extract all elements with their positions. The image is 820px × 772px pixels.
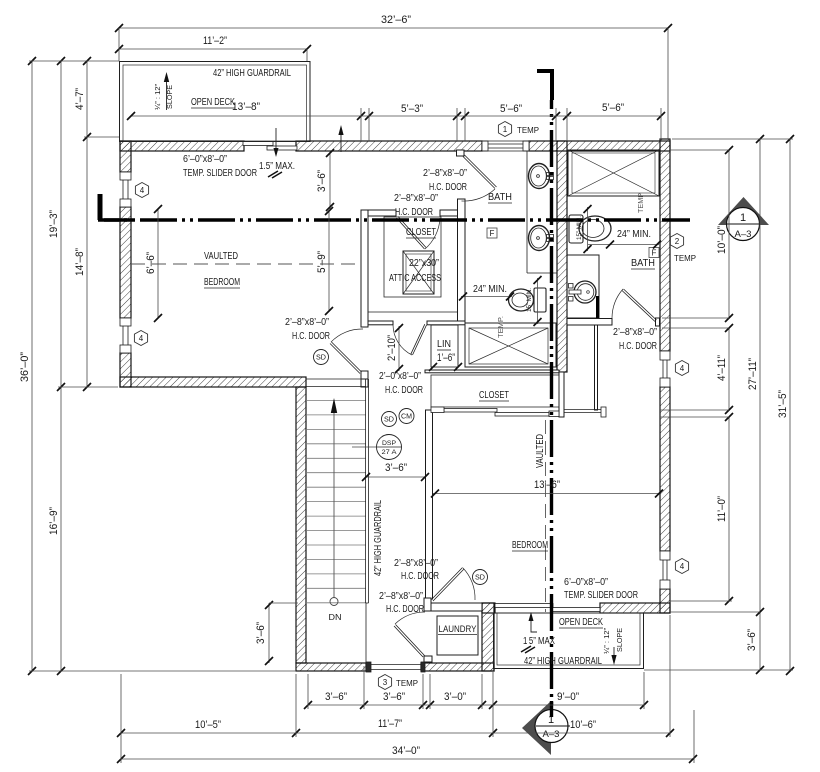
bath1 toilet tank xyxy=(534,288,546,312)
match line horizontal xyxy=(98,194,690,220)
svg-text:13’–6”: 13’–6” xyxy=(534,479,560,491)
dim 6-6 bedroom1 xyxy=(145,205,162,322)
svg-text:TEMP.: TEMP. xyxy=(498,316,505,338)
svg-text:42” HIGH GUARDRAIL: 42” HIGH GUARDRAIL xyxy=(213,68,291,79)
closet2 top wall xyxy=(425,370,559,373)
bedroom1 door swing arc xyxy=(331,329,363,342)
svg-text:5’–6”: 5’–6” xyxy=(602,102,624,114)
wire left exterior wall upper xyxy=(120,141,131,172)
dim 13-6 bedroom2 xyxy=(431,479,663,498)
wire left exterior wall lower xyxy=(120,353,131,387)
section marker bottom xyxy=(522,701,570,755)
wire right exterior wall middle xyxy=(660,387,670,551)
attic access box xyxy=(403,251,434,294)
bath1 door jamb xyxy=(457,150,465,156)
svg-text:10’–0”: 10’–0” xyxy=(716,226,728,254)
svg-text:TEMP: TEMP xyxy=(638,193,645,213)
wire bottom wall at stair xyxy=(296,663,366,671)
label slider door1 xyxy=(183,154,257,179)
laundry door jamb xyxy=(424,656,432,662)
dashed ceiling line bedroom2 xyxy=(545,420,547,612)
label laundry door xyxy=(379,591,424,615)
svg-text:2’–8”x8’–0”: 2’–8”x8’–0” xyxy=(613,327,657,338)
SD circle hall xyxy=(382,412,397,427)
svg-text:3’–6”: 3’–6” xyxy=(383,691,405,703)
svg-text:H.C. DOOR: H.C. DOOR xyxy=(429,182,467,193)
svg-text:ATTIC ACCESS: ATTIC ACCESS xyxy=(389,273,441,284)
dim 24min bath1 xyxy=(459,284,514,301)
closet2 bipass doors xyxy=(431,407,559,417)
label bath1 xyxy=(488,192,512,203)
closet2 right wall xyxy=(559,372,564,417)
label 15max deck2 xyxy=(521,612,555,653)
linen closet box xyxy=(431,325,458,367)
label bedroom2 door xyxy=(394,558,439,582)
wire bedroom2 bottom wall left stub xyxy=(482,603,495,613)
dim line 32-6 top xyxy=(115,14,672,32)
svg-text:2’–8”x8’–0”: 2’–8”x8’–0” xyxy=(394,193,438,204)
closet1 top wall right piece xyxy=(440,210,458,216)
svg-text:CLOSET: CLOSET xyxy=(479,390,509,401)
bath2 shower pan lower xyxy=(567,255,599,318)
label slider door2 xyxy=(564,577,638,601)
svg-text:BEDROOM: BEDROOM xyxy=(204,277,240,288)
F box bath1 xyxy=(487,228,497,238)
bath2 toilet bowl xyxy=(579,216,611,241)
label 1.5max arrow xyxy=(259,128,295,178)
svg-text:SLOPE: SLOPE xyxy=(167,85,174,109)
svg-text:TEMP. SLIDER DOOR: TEMP. SLIDER DOOR xyxy=(183,168,257,179)
label open deck2 xyxy=(559,617,603,628)
svg-text:TEMP. SLIDER DOOR: TEMP. SLIDER DOOR xyxy=(564,590,638,601)
svg-text:42” HIGH GUARDRAIL: 42” HIGH GUARDRAIL xyxy=(524,656,602,667)
dashed ceiling line bedroom1 xyxy=(131,263,361,265)
window W3 top wall xyxy=(482,141,529,151)
svg-text:H.C. DOOR: H.C. DOOR xyxy=(619,341,657,352)
svg-text:2’–8”x8’–0”: 2’–8”x8’–0” xyxy=(379,591,423,602)
match line vertical xyxy=(537,71,552,708)
label bedroom1 door xyxy=(285,317,330,342)
svg-text:4: 4 xyxy=(140,186,145,195)
svg-text:36’–0”: 36’–0” xyxy=(19,352,31,382)
svg-text:SLOPE: SLOPE xyxy=(617,628,624,652)
laundry door swing arc xyxy=(395,612,425,624)
dim 24min bath2 xyxy=(588,229,661,249)
bath1 toilet clearance dim xyxy=(534,276,542,326)
svg-text:2’–8”x8’–0”: 2’–8”x8’–0” xyxy=(285,317,329,328)
wall bath2 to closet2 xyxy=(595,325,598,410)
wire left exterior wall middle xyxy=(120,207,131,318)
bath1 toilet bowl xyxy=(509,289,534,311)
label closet1 door upper xyxy=(423,168,467,193)
bath1 sink upper xyxy=(529,164,554,189)
hall-closet2 wall xyxy=(426,410,433,599)
wire laundry right wall xyxy=(482,603,494,671)
svg-text:24” MIN.: 24” MIN. xyxy=(617,229,651,240)
closet1 inner box xyxy=(384,217,441,297)
dim 3-6 bedroom1 top xyxy=(316,149,334,211)
laundry top wall xyxy=(431,603,482,611)
svg-text:A–3: A–3 xyxy=(543,729,560,739)
svg-text:LIN: LIN xyxy=(437,339,451,350)
bath1 door swing arc xyxy=(462,189,496,201)
closet2 front wall line xyxy=(564,407,606,417)
svg-text:42” HIGH GUARDRAIL: 42” HIGH GUARDRAIL xyxy=(373,500,384,576)
dim 1-6 linen xyxy=(429,363,462,371)
svg-text:OPEN DECK: OPEN DECK xyxy=(191,97,235,108)
label lin door xyxy=(379,371,423,396)
bath2 toilet tank xyxy=(569,215,583,243)
bath2 door jamb at right wall xyxy=(656,318,660,326)
svg-text:H.C. DOOR: H.C. DOOR xyxy=(386,604,424,615)
label closet2 xyxy=(479,390,509,401)
closet1 door swing arc xyxy=(425,218,440,249)
svg-text:27’–11”: 27’–11” xyxy=(747,358,759,390)
svg-text:3’–6”: 3’–6” xyxy=(746,629,758,651)
svg-text:5’–9”: 5’–9” xyxy=(316,251,328,273)
svg-text:2’–8”x8’–0”: 2’–8”x8’–0” xyxy=(394,558,438,569)
svg-text:15” MIN.: 15” MIN. xyxy=(576,216,583,240)
wall A stub below door xyxy=(361,371,368,387)
F box bath2 xyxy=(649,248,659,258)
deck2 outline xyxy=(494,613,644,669)
svg-text:10’–6”: 10’–6” xyxy=(570,719,596,731)
svg-text:6’–6”: 6’–6” xyxy=(145,252,157,274)
svg-text:TEMP: TEMP xyxy=(674,254,696,263)
svg-text:DN: DN xyxy=(329,613,342,622)
svg-text:24” MIN.: 24” MIN. xyxy=(473,284,507,295)
svg-text:H.C. DOOR: H.C. DOOR xyxy=(395,207,433,218)
svg-text:SD: SD xyxy=(475,575,485,582)
label laundry xyxy=(438,624,477,635)
dim 3-6 hall xyxy=(362,462,429,481)
svg-text:H.C. DOOR: H.C. DOOR xyxy=(292,331,330,342)
label open deck1 xyxy=(191,97,235,108)
svg-text:BEDROOM: BEDROOM xyxy=(512,540,548,551)
closet2 interior box xyxy=(431,375,559,407)
wire bedroom2 bottom wall right xyxy=(600,603,670,613)
svg-text:2: 2 xyxy=(675,237,680,246)
extension lines top xyxy=(119,28,668,139)
svg-text:2’–8”x8’–0”: 2’–8”x8’–0” xyxy=(423,168,467,179)
stair treads xyxy=(306,401,366,603)
wire right exterior wall upper xyxy=(660,139,670,351)
svg-text:BATH: BATH xyxy=(631,258,655,269)
hexagon tag 3 bottom xyxy=(378,675,391,690)
svg-text:LAUNDRY: LAUNDRY xyxy=(439,624,478,635)
dim line 27-11 and 3-6 right xyxy=(746,135,764,674)
stair up arrow xyxy=(330,398,338,606)
dim line 4-7 and 14-8 left xyxy=(74,57,91,391)
slider door bedroom1 xyxy=(243,142,297,151)
label bath2 door xyxy=(613,327,657,352)
svg-text:CLOSET: CLOSET xyxy=(406,227,436,238)
svg-text:3’–0”: 3’–0” xyxy=(444,691,466,703)
slider door bedroom2 xyxy=(495,604,600,612)
wire top exterior wall segment middle xyxy=(296,141,482,151)
bath1 sink lower xyxy=(529,226,554,251)
svg-text:6’–0”x8’–0”: 6’–0”x8’–0” xyxy=(183,154,227,165)
svg-text:22”x30”: 22”x30” xyxy=(409,258,439,269)
svg-text:32’–6”: 32’–6” xyxy=(381,14,411,26)
dim 3-6 stair bottom left xyxy=(255,601,298,665)
svg-text:1: 1 xyxy=(740,212,746,224)
closet1 door leaf xyxy=(397,217,427,250)
wall B closet-bath wall xyxy=(458,199,466,321)
hexagon tag 4 right upper xyxy=(675,361,688,376)
svg-text:5’–6”: 5’–6” xyxy=(500,103,522,115)
svg-text:SD: SD xyxy=(384,417,394,424)
wire top exterior wall segment left xyxy=(120,141,244,151)
extension lines bottom xyxy=(121,615,694,763)
svg-text:DSP: DSP xyxy=(382,440,396,447)
svg-text:16’–9”: 16’–9” xyxy=(48,507,60,535)
svg-text:4’–7”: 4’–7” xyxy=(74,88,86,110)
svg-text:4: 4 xyxy=(680,364,685,373)
svg-text:TEMP: TEMP xyxy=(517,126,539,135)
svg-text:15” MIN.: 15” MIN. xyxy=(526,288,533,312)
linen door leaf xyxy=(411,324,427,355)
bath2 door swing arc xyxy=(612,289,623,318)
svg-text:3’–6”: 3’–6” xyxy=(255,622,267,644)
hexagon tag 1 top xyxy=(498,122,511,137)
window W5 right wall xyxy=(660,551,670,589)
linen door swing arc xyxy=(393,325,412,355)
window W1 left wall xyxy=(120,172,131,207)
svg-text:10’–5”: 10’–5” xyxy=(195,719,221,731)
dim line bottom row3 xyxy=(117,745,697,763)
extension lines left xyxy=(29,61,296,671)
bath2 bottom wall xyxy=(567,319,612,326)
svg-text:3’–6”: 3’–6” xyxy=(316,170,328,192)
dim line 10-0 4-11 11-0 right xyxy=(716,146,733,605)
svg-text:VAULTED: VAULTED xyxy=(204,251,238,262)
dim 5-9 closet side xyxy=(316,207,333,315)
extension lines right xyxy=(644,139,793,670)
svg-text:34’–0”: 34’–0” xyxy=(392,745,420,757)
svg-text:3’–6”: 3’–6” xyxy=(325,691,347,703)
wire stairwell left wall xyxy=(296,387,306,663)
svg-text:¼” : 12”: ¼” : 12” xyxy=(155,83,162,110)
hexagon tag 2 right xyxy=(670,234,683,249)
svg-text:9’–0”: 9’–0” xyxy=(557,691,579,703)
dim line bottom row1 xyxy=(304,691,648,709)
bedroom2 door leaf xyxy=(432,568,465,602)
dim line interior top chain xyxy=(127,101,665,120)
CM circle hall xyxy=(399,409,414,424)
hexagon tag 4 left upper xyxy=(135,183,148,198)
SD circle bedroom1 xyxy=(314,350,329,365)
svg-text:31’–5”: 31’–5” xyxy=(777,390,789,418)
svg-text:¼” : 12”: ¼” : 12” xyxy=(604,627,611,654)
svg-text:2’–10”: 2’–10” xyxy=(386,335,398,361)
svg-text:H.C. DOOR: H.C. DOOR xyxy=(385,385,423,396)
window W4 right wall xyxy=(660,351,670,387)
svg-text:TEMP: TEMP xyxy=(396,679,418,688)
closet1 top wall left piece xyxy=(368,210,396,216)
bedroom1 door jamb xyxy=(361,371,368,379)
svg-text:BATH: BATH xyxy=(488,192,512,203)
hall-bath wall right piece xyxy=(427,321,465,325)
svg-text:VAULTED: VAULTED xyxy=(535,434,546,468)
laundry room box xyxy=(437,616,478,655)
svg-text:1’–6”: 1’–6” xyxy=(437,352,455,364)
laundry door leaf xyxy=(394,625,425,658)
label bedroom1 xyxy=(204,277,240,288)
svg-text:11’–2”: 11’–2” xyxy=(203,35,227,47)
SD circle bedroom2 xyxy=(473,570,488,585)
bath1 vanity counter xyxy=(527,151,557,273)
dim line 31-5 right xyxy=(777,135,794,675)
bath2 door leaf xyxy=(622,289,657,322)
dim 2-10 at bedroom1 door xyxy=(386,324,403,373)
dim line 19-3 and 16-9 left xyxy=(48,57,65,675)
bath2 shower box top xyxy=(568,150,659,196)
svg-text:4: 4 xyxy=(139,334,144,343)
wire bedroom1 bottom wall xyxy=(120,377,306,387)
dim line 36-0 left xyxy=(19,57,36,675)
small arrow at deck1 right xyxy=(338,125,343,152)
dim line bottom row2 xyxy=(117,718,674,737)
DSP circle hall xyxy=(352,435,402,460)
svg-text:11’–0”: 11’–0” xyxy=(716,496,728,522)
wire top exterior wall segment right xyxy=(529,141,670,151)
svg-text:F: F xyxy=(490,229,495,238)
label slope deck2 rotated xyxy=(604,627,624,665)
hexagon tag 4 left lower xyxy=(134,331,147,346)
svg-text:4: 4 xyxy=(680,562,685,571)
wall A bedroom1 right wall xyxy=(361,210,368,327)
svg-text:5’–3”: 5’–3” xyxy=(401,103,423,115)
svg-text:6’–0”x8’–0”: 6’–0”x8’–0” xyxy=(564,577,608,588)
svg-text:CM: CM xyxy=(401,414,412,421)
svg-text:14’–8”: 14’–8” xyxy=(74,248,86,276)
closet1 bottom line xyxy=(368,311,457,313)
label attic access xyxy=(389,258,441,284)
svg-text:27 A: 27 A xyxy=(382,449,398,456)
hall-bath wall left piece xyxy=(368,321,393,325)
dim line 11-2 xyxy=(115,35,311,53)
svg-text:1 5” MAX: 1 5” MAX xyxy=(523,636,555,647)
svg-text:1: 1 xyxy=(503,125,508,134)
hexagon tag 4 right lower xyxy=(675,559,688,574)
bedroom1 door leaf xyxy=(330,342,362,374)
svg-text:13’–8”: 13’–8” xyxy=(232,101,260,113)
svg-text:4’–11”: 4’–11” xyxy=(716,355,728,381)
svg-text:11’–7”: 11’–7” xyxy=(378,718,402,730)
bath2 toilet clearance dim xyxy=(584,205,592,253)
svg-text:2’–0”x8’–0”: 2’–0”x8’–0” xyxy=(379,371,421,382)
deck1 outline xyxy=(120,62,311,142)
window W2 left wall xyxy=(120,318,131,353)
label lin xyxy=(437,339,455,364)
slope arrow deck1 xyxy=(164,72,169,110)
bath1 shower box xyxy=(465,323,556,367)
label closet1 xyxy=(406,227,436,238)
window W6 bottom wall tempered xyxy=(366,662,425,672)
svg-text:1.5” MAX.: 1.5” MAX. xyxy=(259,161,295,172)
label closet1 door lower xyxy=(394,193,438,218)
svg-text:19’–3”: 19’–3” xyxy=(48,210,60,238)
label bath2 xyxy=(631,258,655,269)
svg-text:3’–6”: 3’–6” xyxy=(385,462,407,474)
bedroom2 door swing arc xyxy=(463,568,475,600)
section marker top right xyxy=(718,197,769,241)
svg-text:SD: SD xyxy=(316,355,326,362)
label bedroom2 xyxy=(512,540,548,551)
stair top lines xyxy=(306,379,366,387)
wire bottom wall at laundry xyxy=(421,663,494,671)
stair right guardrail lines xyxy=(366,379,369,663)
bedroom2 door jamb xyxy=(424,598,431,611)
svg-text:3: 3 xyxy=(383,678,388,687)
bath2 pedestal sink xyxy=(569,281,597,303)
extension lines top chain xyxy=(361,108,661,141)
svg-text:F: F xyxy=(652,249,657,258)
wire central wall between baths xyxy=(557,141,567,372)
svg-text:H.C. DOOR: H.C. DOOR xyxy=(401,571,439,582)
bath1 door leaf xyxy=(463,155,497,189)
svg-text:OPEN DECK: OPEN DECK xyxy=(559,617,603,628)
wire right exterior wall lower xyxy=(660,589,670,613)
svg-text:A–3: A–3 xyxy=(735,229,752,239)
